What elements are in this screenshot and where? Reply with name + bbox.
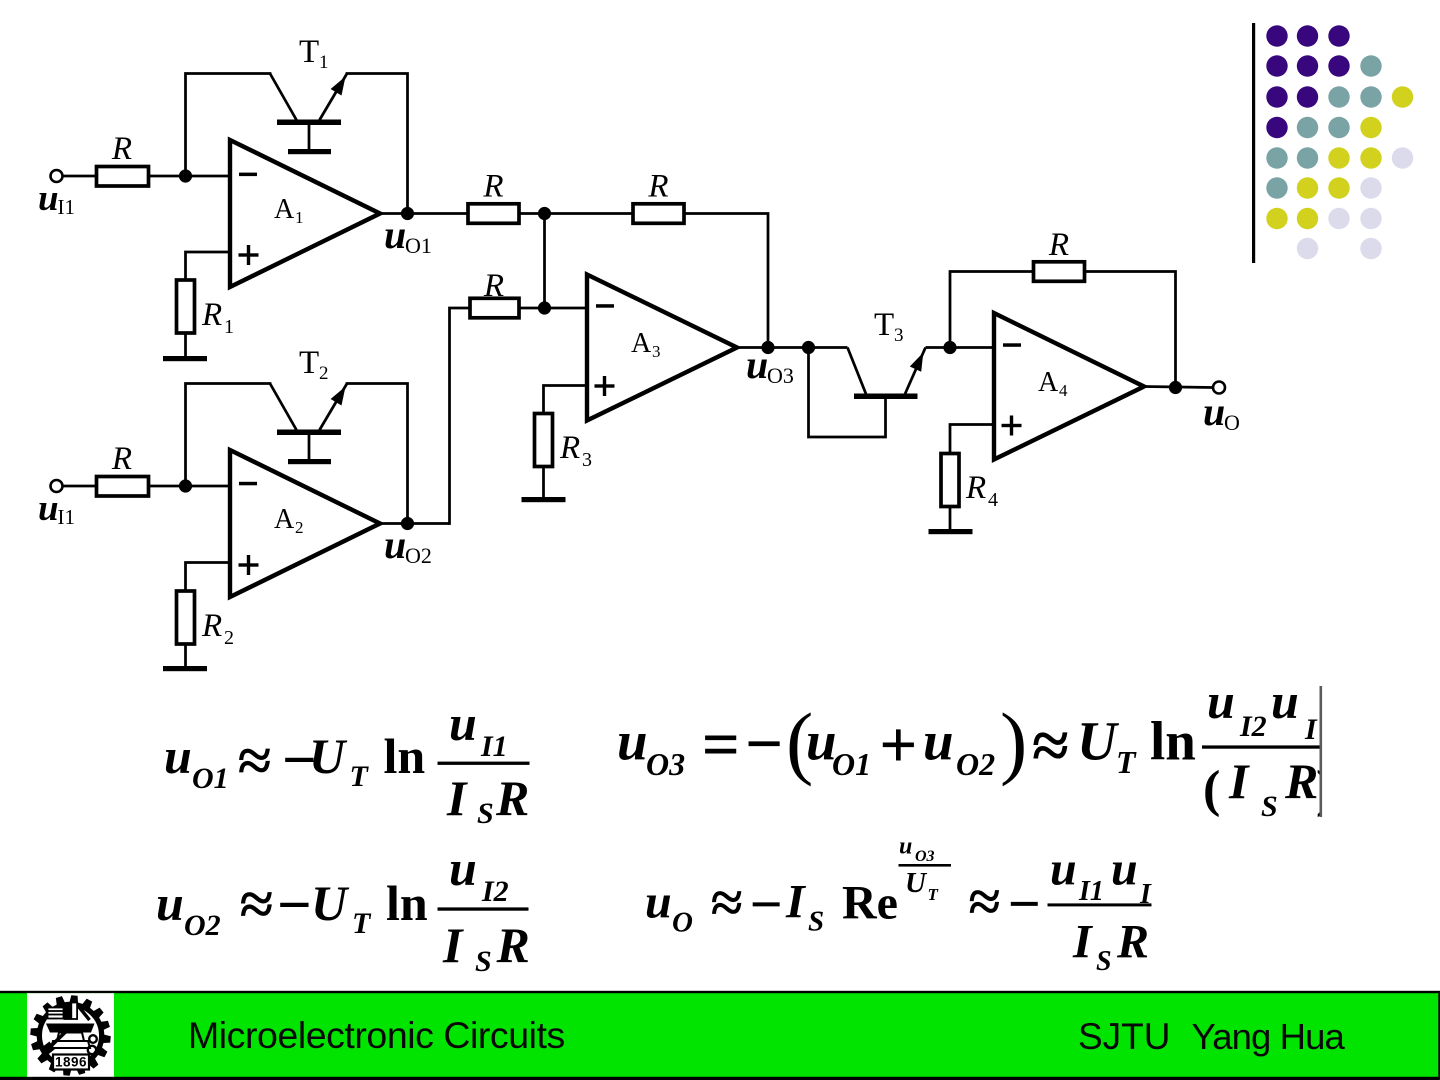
svg-text:I1: I1 — [58, 505, 76, 529]
wire A2 + input to R2 — [186, 563, 231, 592]
svg-text:R: R — [201, 297, 222, 333]
svg-text:u: u — [384, 212, 406, 257]
node output — [1169, 381, 1182, 394]
svg-text:O2: O2 — [956, 746, 995, 782]
svg-text:T: T — [928, 885, 939, 904]
svg-text:R: R — [1048, 227, 1069, 263]
A2 minus sign — [239, 482, 257, 486]
resistor R4 — [941, 454, 959, 507]
svg-text:R: R — [496, 917, 530, 973]
svg-text:u: u — [156, 875, 184, 931]
svg-text:u: u — [617, 711, 648, 772]
wire R to A2 inverting input — [149, 485, 231, 488]
resistor R (sum bottom) — [470, 298, 519, 318]
wire A4 output to terminal — [1144, 387, 1213, 388]
svg-text:1: 1 — [224, 316, 234, 338]
svg-text:I2: I2 — [1239, 710, 1267, 743]
label u_O1 — [384, 212, 432, 258]
svg-text:≈: ≈ — [969, 869, 1001, 934]
svg-text:): ) — [1000, 696, 1027, 787]
A2 plus sign — [239, 555, 259, 575]
T3 base loop wire — [809, 348, 886, 438]
transistor T3 base bar — [854, 394, 918, 400]
op-amp A4 — [994, 313, 1144, 460]
label A2 — [274, 504, 304, 537]
ground bar (R3) — [522, 497, 566, 502]
svg-text:I1: I1 — [1078, 876, 1104, 907]
resistor R3 — [535, 414, 553, 467]
svg-text:S: S — [808, 906, 824, 938]
svg-text:R: R — [111, 131, 132, 167]
A3 minus sign — [596, 304, 614, 308]
svg-text:O: O — [1224, 410, 1240, 435]
label T3 — [874, 307, 904, 346]
svg-text:R: R — [1116, 916, 1149, 969]
wire A2 output — [380, 522, 450, 525]
ground bar (R2) — [163, 666, 207, 671]
svg-text:R: R — [647, 169, 668, 205]
resistor R (feedback A3) — [633, 204, 684, 224]
label u_I1 (top input) — [38, 178, 75, 219]
svg-text:−: − — [750, 872, 783, 937]
svg-text:1896: 1896 — [55, 1055, 87, 1070]
label T2 — [299, 345, 329, 384]
svg-text:u: u — [449, 840, 477, 896]
svg-text:I: I — [785, 876, 807, 929]
wire feedback R to output — [1085, 272, 1176, 388]
svg-text:2: 2 — [295, 518, 304, 537]
input terminal uI1 (bottom) — [51, 480, 63, 492]
wire R to second R — [519, 212, 633, 215]
formula uO1 — [164, 695, 530, 830]
svg-text:S: S — [1261, 790, 1278, 823]
svg-text:Re: Re — [842, 877, 898, 930]
label A4 — [1038, 367, 1068, 400]
svg-text:−: − — [745, 707, 783, 781]
transistor T3 collector line — [848, 348, 867, 395]
svg-text:I: I — [1072, 916, 1094, 969]
label T1 — [299, 34, 329, 73]
ground bar (R1) — [163, 356, 207, 361]
svg-text:≈: ≈ — [1032, 709, 1069, 783]
svg-text:S: S — [475, 945, 492, 978]
svg-text:≈: ≈ — [240, 872, 273, 939]
label A1 — [274, 194, 304, 227]
ground bar under T2 base — [288, 459, 331, 464]
node junction at A1 input — [179, 169, 192, 182]
svg-text:(: ( — [1203, 761, 1220, 818]
node junction A4 feedback — [943, 341, 956, 354]
transistor T2 base bar — [277, 430, 341, 436]
label R3 — [559, 430, 592, 471]
node junction at A2 input — [179, 479, 192, 492]
svg-text:2: 2 — [319, 363, 329, 384]
op-amp A3 — [587, 275, 737, 421]
svg-text:I: I — [1304, 713, 1318, 746]
node uO3 — [761, 341, 774, 354]
svg-text:u: u — [923, 711, 954, 772]
transistor T2 emitter line with arrow — [320, 384, 348, 431]
wire A3 output — [737, 346, 848, 349]
node junction sum top — [538, 207, 551, 220]
svg-text:I1: I1 — [58, 195, 76, 219]
wire R4 to ground — [949, 507, 952, 530]
A3 plus sign — [595, 376, 615, 396]
wire feedback left vertical (A1) — [186, 74, 271, 177]
svg-text:O1: O1 — [192, 762, 229, 795]
resistor R1 — [177, 280, 195, 333]
label u_I1 (bottom input) — [38, 488, 75, 529]
svg-text:T: T — [299, 34, 319, 70]
svg-text:4: 4 — [988, 489, 998, 511]
svg-text:u: u — [1111, 843, 1138, 896]
resistor R (input 2) — [97, 477, 149, 497]
svg-text:T: T — [1116, 744, 1137, 780]
svg-text:3: 3 — [652, 342, 661, 361]
wire T1 emitter to right vertical — [347, 74, 408, 214]
wire uO2 up to summing resistor — [450, 308, 471, 524]
svg-text:ln: ln — [384, 728, 426, 784]
svg-text:U: U — [905, 867, 928, 899]
svg-text:I: I — [1228, 753, 1250, 809]
svg-text:u: u — [38, 178, 59, 219]
svg-text:u: u — [1050, 843, 1077, 896]
svg-text:R: R — [559, 430, 580, 466]
wire R2 to ground — [184, 644, 187, 667]
label R1 — [201, 297, 234, 338]
wire A3 + input to R3 — [544, 386, 588, 414]
T1 base wire — [308, 125, 311, 150]
svg-text:A: A — [1038, 367, 1059, 398]
wire R3 to ground — [542, 467, 545, 498]
resistor R (sum top) — [468, 204, 519, 224]
wire input1 to R — [63, 175, 97, 178]
transistor T3 emitter line with arrow — [905, 348, 926, 395]
SJTU gear logo — [30, 995, 111, 1076]
svg-text:u: u — [1207, 673, 1235, 729]
label R2 — [201, 608, 234, 649]
ground bar under T1 base — [288, 149, 331, 154]
wire A1 + input to R1 — [186, 252, 231, 280]
svg-text:A: A — [631, 328, 652, 359]
svg-text:I: I — [442, 917, 464, 973]
svg-text:u: u — [449, 695, 477, 751]
A1 plus sign — [239, 245, 259, 265]
A4 plus sign — [1002, 416, 1022, 436]
footer bottom edge — [0, 1077, 1440, 1080]
svg-text:U: U — [309, 728, 348, 784]
wire feedback up from node — [950, 272, 1034, 348]
node uO1 — [401, 207, 414, 220]
op-amp A1 — [230, 140, 380, 287]
svg-text:O: O — [672, 907, 693, 939]
svg-text:ln: ln — [1150, 711, 1196, 772]
wire T2 emitter to right vertical — [347, 384, 408, 524]
svg-text:u: u — [1203, 389, 1225, 434]
svg-text:A: A — [274, 194, 295, 225]
svg-text:u: u — [645, 876, 672, 929]
wire sum-bottom R to A3 input — [519, 307, 587, 310]
svg-text:O3: O3 — [646, 746, 685, 782]
wire A4 + input to R4 — [950, 425, 994, 454]
svg-text:u: u — [746, 342, 768, 387]
node junction A3 inverting input — [538, 301, 551, 314]
svg-text:R: R — [495, 770, 529, 826]
svg-text:3: 3 — [582, 449, 592, 471]
svg-text:O3: O3 — [767, 363, 794, 388]
svg-text:R: R — [111, 441, 132, 477]
svg-text:I2: I2 — [481, 875, 509, 908]
label A3 — [631, 328, 661, 361]
svg-text:O1: O1 — [832, 746, 871, 782]
svg-text:R: R — [965, 470, 986, 506]
wire junction down to A3 input node — [543, 214, 546, 309]
svg-text:U: U — [311, 875, 350, 931]
svg-text:Microelectronic Circuits: Microelectronic Circuits — [188, 1014, 565, 1056]
svg-text:A: A — [274, 504, 295, 535]
svg-text:u: u — [899, 834, 912, 860]
svg-text:1: 1 — [319, 52, 329, 73]
wire R1 to ground — [184, 333, 187, 357]
resistor R2 — [177, 591, 195, 644]
wire T3 emitter to A4 input — [926, 346, 995, 349]
svg-text:Yang Hua: Yang Hua — [1192, 1016, 1346, 1057]
node junction T3 base tie — [802, 341, 815, 354]
svg-text:T: T — [352, 907, 372, 940]
svg-text:O2: O2 — [405, 543, 432, 568]
svg-text:I1: I1 — [480, 730, 508, 763]
A1 minus sign — [239, 173, 257, 177]
svg-text:−: − — [1008, 871, 1041, 936]
svg-text:ln: ln — [386, 875, 428, 931]
wire feedback left vertical (A2) — [186, 384, 271, 487]
transistor T1 emitter line with arrow — [320, 74, 348, 121]
svg-text:u: u — [164, 728, 192, 784]
A4 minus sign — [1003, 343, 1021, 347]
svg-text:u: u — [1271, 673, 1299, 729]
label u_O — [1203, 389, 1240, 435]
resistor R (input 1) — [97, 167, 149, 187]
svg-text:S: S — [477, 797, 494, 830]
transistor T2 collector line — [270, 384, 297, 431]
svg-text:O1: O1 — [405, 233, 432, 258]
svg-text:R: R — [482, 169, 503, 205]
svg-text:≈: ≈ — [238, 728, 271, 795]
svg-text:R: R — [201, 608, 222, 644]
svg-text:S: S — [1096, 946, 1112, 977]
label R4 — [965, 470, 998, 511]
node uO2 — [401, 517, 414, 530]
wire feedback R to uO3 node — [684, 214, 768, 348]
resistor R (feedback A4) — [1034, 262, 1085, 282]
svg-text:1: 1 — [295, 208, 304, 227]
ground bar (R4) — [929, 529, 973, 534]
formula image edge line — [1320, 686, 1323, 817]
wire input2 to R — [63, 485, 97, 488]
svg-text:4: 4 — [1059, 381, 1068, 400]
svg-text:U: U — [1077, 711, 1120, 772]
svg-text:−: − — [277, 872, 312, 939]
svg-text:+: + — [879, 708, 917, 782]
svg-text:R: R — [1284, 753, 1318, 809]
wire A1 output — [380, 212, 468, 215]
svg-text:I: I — [446, 770, 468, 826]
label u_O2 — [384, 522, 432, 568]
svg-text:T: T — [874, 307, 894, 343]
svg-text:R: R — [483, 268, 504, 304]
svg-text:≈: ≈ — [711, 870, 743, 935]
svg-text:u: u — [38, 488, 59, 529]
output terminal uO — [1213, 382, 1225, 394]
T2 base wire — [308, 435, 311, 460]
svg-text:O2: O2 — [184, 909, 221, 942]
transistor T1 base bar — [277, 120, 341, 126]
svg-text:=: = — [702, 708, 740, 782]
svg-text:T: T — [350, 760, 370, 793]
svg-text:T: T — [299, 345, 319, 381]
svg-text:O3: O3 — [915, 848, 935, 865]
svg-text:u: u — [384, 522, 406, 567]
op-amp A2 — [230, 450, 380, 597]
svg-text:SJTU: SJTU — [1078, 1016, 1171, 1057]
svg-text:2: 2 — [224, 627, 234, 649]
wire R to A1 inverting input — [149, 175, 231, 178]
input terminal uI1 (top) — [51, 170, 63, 182]
label u_O3 — [746, 342, 794, 388]
formula uO2 — [156, 840, 530, 978]
transistor T1 collector line — [270, 74, 297, 121]
svg-text:3: 3 — [894, 325, 904, 346]
